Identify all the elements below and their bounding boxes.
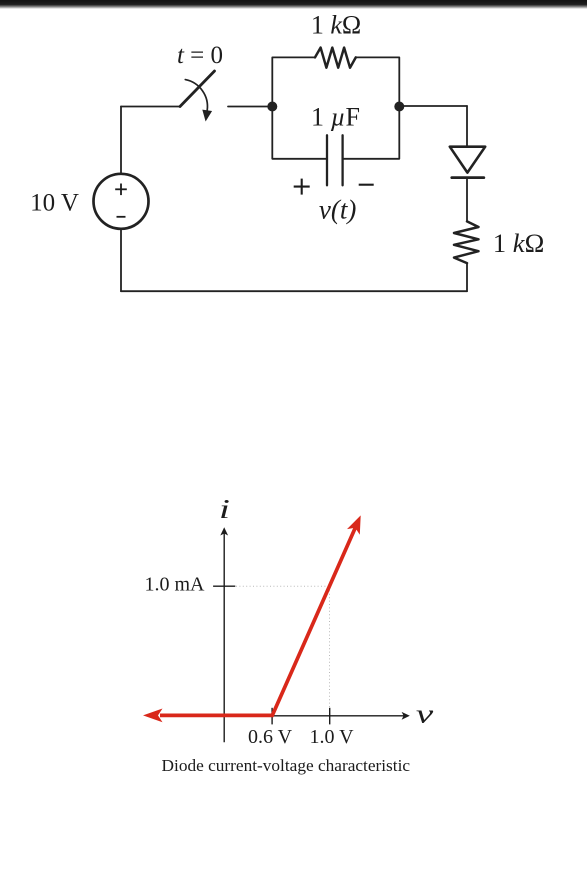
svg-text:v(t): v(t) xyxy=(319,195,356,225)
svg-text:0.6 V: 0.6 V xyxy=(248,726,293,748)
svg-text:Diode current-voltage characte: Diode current-voltage characteristic xyxy=(162,756,411,775)
svg-text:1 kΩ: 1 kΩ xyxy=(311,11,361,40)
svg-text:t = 0: t = 0 xyxy=(177,42,223,69)
svg-text:10 V: 10 V xyxy=(30,190,79,217)
svg-text:1 µF: 1 µF xyxy=(311,103,360,132)
svg-text:i: i xyxy=(219,495,230,525)
svg-text:v: v xyxy=(416,700,434,729)
svg-text:1.0 mA: 1.0 mA xyxy=(145,574,206,596)
svg-text:1 kΩ: 1 kΩ xyxy=(493,228,544,258)
svg-text:1.0 V: 1.0 V xyxy=(309,726,354,748)
